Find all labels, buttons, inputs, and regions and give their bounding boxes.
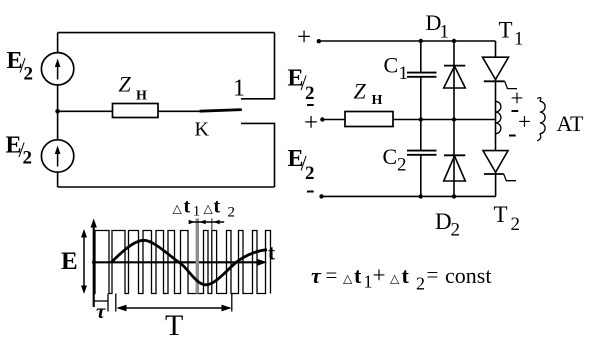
wire resistor to switch xyxy=(158,110,201,112)
node dot top rail / C column xyxy=(419,39,423,43)
capacitor C2 xyxy=(407,151,437,155)
autotransformer primary coil xyxy=(496,101,501,134)
label delta t1 xyxy=(173,196,201,220)
svg-text:Z: Z xyxy=(354,79,367,104)
capacitor C1 xyxy=(407,73,437,77)
svg-text:t: t xyxy=(268,241,275,265)
wire T2 to bottom rail xyxy=(495,172,497,196)
label ZH (left) xyxy=(119,72,148,104)
wire bottom of left loop xyxy=(58,186,275,188)
svg-text:K: K xyxy=(195,119,210,141)
wire resistor to T column (mid rail) xyxy=(393,119,496,121)
svg-text:t: t xyxy=(184,196,191,218)
svg-text:△: △ xyxy=(173,202,183,216)
label E/2 lower-left xyxy=(6,133,33,169)
svg-text:1: 1 xyxy=(399,63,409,84)
T period arrow xyxy=(117,294,232,312)
resistor ZH (left) xyxy=(113,104,159,118)
svg-text:△: △ xyxy=(390,272,400,286)
label E/2 lower (right) xyxy=(288,146,315,184)
top rail xyxy=(319,40,496,42)
thyristor T2 xyxy=(483,151,516,181)
svg-text:τ: τ xyxy=(96,299,106,323)
svg-text:2: 2 xyxy=(451,220,461,241)
label delta t2 xyxy=(204,196,236,221)
label T1 xyxy=(499,18,524,50)
diode column wires xyxy=(453,41,455,196)
switch K blade xyxy=(200,110,242,112)
svg-text:1: 1 xyxy=(233,76,245,102)
thyristor T1 xyxy=(483,57,518,88)
current source E/2 lower xyxy=(41,140,73,172)
svg-text:τ: τ xyxy=(311,263,322,288)
svg-text:T: T xyxy=(165,309,183,339)
svg-text:t: t xyxy=(402,263,410,288)
svg-text:△: △ xyxy=(343,272,353,286)
wire coil to T2 xyxy=(495,134,497,151)
svg-text:t: t xyxy=(354,263,362,288)
node dot mid rail / D column xyxy=(452,117,456,121)
node dot mid rail / C column xyxy=(419,117,423,121)
svg-text:=: = xyxy=(427,263,439,287)
svg-text:2: 2 xyxy=(23,148,33,169)
label C2 xyxy=(383,144,407,176)
terminal dot bottom xyxy=(319,194,323,198)
svg-text:t: t xyxy=(214,196,221,218)
bottom rail xyxy=(322,195,496,197)
label T2 xyxy=(494,202,521,235)
wire T1 to coil xyxy=(495,80,497,102)
extension line delta-t2 xyxy=(211,218,213,230)
label E/2 upper-left xyxy=(7,48,34,85)
svg-text:-: - xyxy=(508,119,517,148)
wire mid to resistor (right) xyxy=(322,119,345,121)
sine wave xyxy=(111,240,267,284)
AT secondary coil xyxy=(537,98,545,141)
svg-text:2: 2 xyxy=(24,64,34,85)
tau dimension marks xyxy=(94,294,116,312)
svg-text:C: C xyxy=(383,144,398,169)
wire lower contact xyxy=(241,123,275,187)
wire top-left loop top xyxy=(58,32,275,34)
terminal dot top xyxy=(317,39,321,43)
diode D2 xyxy=(444,155,466,181)
svg-text:T: T xyxy=(494,202,508,227)
label D2 xyxy=(435,209,460,241)
waveform vertical axis xyxy=(91,219,97,308)
label E/2 upper (right) xyxy=(288,66,315,105)
svg-text:=: = xyxy=(326,263,338,287)
terminal dot mid xyxy=(320,117,324,121)
svg-text:1: 1 xyxy=(440,22,450,43)
svg-text:+: + xyxy=(518,109,531,134)
svg-text:H: H xyxy=(372,93,383,108)
pulse train square wave xyxy=(94,231,271,294)
label ZH (right) xyxy=(354,79,383,109)
wire left column lower xyxy=(57,172,59,187)
wire mid from node to resistor xyxy=(58,110,113,112)
svg-text:Z: Z xyxy=(119,72,132,97)
label D1 xyxy=(426,10,450,43)
svg-text:1: 1 xyxy=(514,29,524,50)
node dot bottom rail / D column xyxy=(452,194,456,198)
svg-text:E: E xyxy=(61,248,78,275)
svg-text:+: + xyxy=(304,110,318,137)
label C1 xyxy=(384,53,409,85)
svg-text:+: + xyxy=(373,263,386,288)
svg-text:2: 2 xyxy=(397,155,407,176)
gray pulse delta-t1 xyxy=(196,218,199,293)
resistor ZH (right) xyxy=(345,112,393,127)
wire left column upper xyxy=(57,33,59,53)
wire upper contact 1 xyxy=(241,33,275,99)
svg-text:2: 2 xyxy=(228,205,236,221)
equation tau = dt1 + dt2 = const xyxy=(311,263,491,294)
wire left column middle xyxy=(57,85,59,140)
capacitor column wires xyxy=(420,41,422,196)
svg-text:H: H xyxy=(136,89,147,104)
svg-text:+: + xyxy=(297,24,311,51)
thyristor column upper wire xyxy=(495,41,497,57)
diode D1 xyxy=(444,66,466,88)
svg-text:const: const xyxy=(445,263,491,288)
dimension line delta-t xyxy=(189,220,225,225)
svg-text:-: - xyxy=(306,175,315,204)
svg-text:AT: AT xyxy=(557,111,584,136)
svg-text:1: 1 xyxy=(193,204,201,220)
svg-text:1: 1 xyxy=(364,272,373,292)
node dot top rail / D column xyxy=(452,39,456,43)
waveform t axis xyxy=(92,259,267,266)
svg-text:2: 2 xyxy=(416,274,425,294)
svg-text:C: C xyxy=(384,53,399,78)
E double arrow xyxy=(81,229,87,294)
current source E/2 upper xyxy=(41,53,73,85)
svg-text:△: △ xyxy=(204,202,214,216)
svg-text:T: T xyxy=(499,18,513,43)
svg-text:D: D xyxy=(435,209,452,234)
node dot bottom rail / C column xyxy=(419,194,423,198)
svg-text:2: 2 xyxy=(511,214,521,235)
node junction dot xyxy=(55,109,60,114)
